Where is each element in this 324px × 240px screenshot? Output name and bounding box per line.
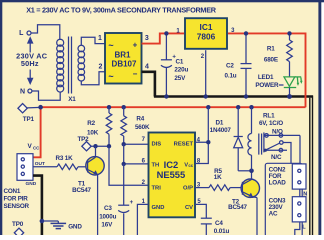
- svg-text:6V, 1C/O: 6V, 1C/O: [259, 120, 283, 127]
- N/C contact: [264, 148, 287, 161]
- CON1 text: [4, 188, 30, 210]
- switch arm: [265, 141, 291, 164]
- capacitor C2: [225, 33, 252, 96]
- svg-text:BR1: BR1: [114, 50, 131, 59]
- svg-text:1K: 1K: [214, 174, 222, 181]
- svg-text:7806: 7806: [197, 32, 216, 42]
- svg-text:R3 1K: R3 1K: [55, 155, 73, 162]
- wire N to primary: [32, 91, 60, 100]
- CON2/CON3 container box: [265, 163, 302, 236]
- svg-text:TH: TH: [152, 162, 160, 168]
- wire R4 node to TH pin 6: [123, 144, 125, 164]
- svg-text:1N4007: 1N4007: [210, 127, 232, 134]
- svg-text:X1 = 230V AC TO 9V, 300mA SECO: X1 = 230V AC TO 9V, 300mA SECONDARY TRAN…: [26, 5, 217, 14]
- svg-text:R2: R2: [87, 120, 95, 127]
- wire node to 555 TRI pin 2: [109, 146, 149, 185]
- svg-text:0.01u: 0.01u: [214, 228, 230, 235]
- wire R3 to T1 base: [78, 166, 88, 168]
- CV pin5 wire to C4: [195, 204, 206, 218]
- svg-text:N/O: N/O: [272, 128, 283, 135]
- svg-text:560K: 560K: [135, 124, 150, 131]
- svg-text:D1: D1: [216, 120, 224, 127]
- svg-text:LED1: LED1: [258, 74, 274, 81]
- diode D1 1N4007: [210, 107, 252, 171]
- 230V AC 50Hz source arrows: [16, 36, 48, 85]
- svg-text:LOAD: LOAD: [269, 179, 287, 186]
- svg-text:C1: C1: [176, 58, 184, 65]
- svg-text:GND: GND: [152, 205, 165, 211]
- red drop to CON1 Vcc: [33, 107, 41, 157]
- svg-text:TRI: TRI: [152, 185, 162, 191]
- svg-text:1000u: 1000u: [99, 213, 116, 220]
- wire rail to RESET pin4 and Vcc pin8: [195, 107, 208, 142]
- node wire TP2 / T1 collector / R2 / TRI: [91, 145, 109, 147]
- LED1 POWER: [255, 74, 302, 97]
- ground rail (black): [154, 95, 313, 98]
- capacitor C3 1000u 16V: [99, 200, 133, 235]
- connector CON3: [292, 197, 306, 222]
- svg-text:10K: 10K: [87, 129, 99, 136]
- svg-text:~: ~: [108, 72, 113, 82]
- svg-text:220u: 220u: [174, 67, 188, 74]
- wire L to primary: [31, 25, 60, 40]
- wire R5 to T2 base: [230, 187, 242, 189]
- terminal N: [20, 89, 32, 96]
- 555 GND pin 1 wire: [137, 204, 148, 235]
- svg-text:C3: C3: [104, 205, 112, 212]
- resistor R5 1K: [209, 168, 230, 190]
- relay armature bar: [263, 132, 265, 152]
- svg-text:R1: R1: [267, 46, 275, 53]
- wire secondary top to BR1 pin1: [81, 37, 105, 45]
- test point TP0: [12, 221, 24, 238]
- wire CON1 OUT to R3: [33, 166, 57, 168]
- wire BR1 pin3 to IC1 (red): [142, 33, 185, 43]
- svg-text:1: 1: [98, 35, 102, 42]
- capacitor C1: [161, 33, 189, 96]
- svg-text:C4: C4: [215, 220, 223, 227]
- svg-text:X1: X1: [68, 96, 76, 103]
- transformer core: [69, 37, 72, 94]
- +6V rail (red): [41, 106, 306, 108]
- resistor R3 1K: [55, 155, 78, 170]
- svg-text:C2: C2: [226, 63, 234, 70]
- relay coil: [248, 107, 252, 171]
- junction dots +6V rail: [38, 105, 43, 110]
- svg-text:3: 3: [145, 35, 149, 42]
- svg-text:NE555: NE555: [157, 169, 186, 180]
- svg-text:680E: 680E: [264, 56, 278, 63]
- svg-text:AC: AC: [269, 210, 278, 217]
- transistor T2 BC547: [228, 171, 259, 235]
- svg-text:RL1: RL1: [263, 112, 275, 119]
- svg-text:N: N: [20, 89, 25, 96]
- svg-text:SENSOR: SENSOR: [4, 203, 30, 210]
- IC1 pin 2 wire to ground: [205, 50, 207, 96]
- junction dot D1/coil/T2 collector: [249, 169, 254, 174]
- svg-text:25V: 25V: [174, 75, 186, 82]
- svg-text:50Hz: 50Hz: [21, 59, 39, 68]
- ground down right side (black double line): [310, 96, 313, 236]
- svg-text:L: L: [302, 224, 306, 230]
- junction dots ground rail: [164, 94, 168, 98]
- resistor R1 680E: [264, 33, 292, 76]
- resistor R4 560K: [121, 107, 150, 144]
- svg-text:POWER: POWER: [255, 82, 279, 89]
- wire node to capacitor C3: [123, 164, 125, 205]
- junction dots top rail: [164, 31, 168, 35]
- capacitor C4 0.01u: [201, 218, 230, 235]
- ground symbol: [42, 221, 66, 229]
- svg-text:RESET: RESET: [174, 141, 194, 147]
- bridge rectifier BR1 DB107: [105, 33, 142, 84]
- svg-text:R4: R4: [136, 115, 144, 122]
- svg-text:2: 2: [99, 64, 103, 71]
- connector CON1: [17, 154, 33, 181]
- test point TP1: [18, 104, 41, 123]
- svg-text:CV: CV: [185, 205, 193, 211]
- relay core: [259, 134, 262, 155]
- resistor R2 10K: [87, 107, 112, 146]
- svg-text:TP0: TP0: [12, 221, 24, 228]
- svg-text:~: ~: [108, 41, 113, 51]
- svg-text:IC1: IC1: [200, 22, 213, 32]
- junction dot GND: [40, 219, 45, 224]
- svg-text:GND: GND: [26, 181, 37, 187]
- connector CON2: [292, 164, 306, 189]
- svg-text:16V: 16V: [101, 222, 113, 229]
- svg-text:DIS: DIS: [152, 141, 162, 147]
- svg-text:CON1: CON1: [4, 188, 21, 195]
- svg-text:GND: GND: [68, 223, 82, 230]
- svg-text:N/C: N/C: [271, 154, 282, 161]
- svg-text:BC547: BC547: [228, 204, 247, 211]
- +9V rail from IC1 output (red): [228, 33, 306, 107]
- svg-text:DB107: DB107: [112, 60, 137, 69]
- svg-text:−: −: [133, 70, 138, 79]
- svg-text:0.1u: 0.1u: [225, 73, 237, 80]
- border frame: [0, 0, 324, 2]
- wire secondary bottom to BR1 pin2: [81, 72, 105, 85]
- svg-text:+: +: [133, 41, 138, 50]
- wire CON2 to CON3 (N): [299, 189, 301, 197]
- wire R4 to DIS pin 7: [124, 143, 149, 145]
- timer IC2 NE555: [149, 133, 196, 218]
- CON2 text: [269, 167, 287, 187]
- transformer X1 primary winding: [57, 39, 64, 92]
- svg-text:BC547: BC547: [72, 187, 91, 194]
- svg-text:O/P: O/P: [183, 185, 193, 191]
- wire BR1 pin4 to ground rail (black): [142, 72, 155, 97]
- svg-text:TP1: TP1: [23, 116, 35, 123]
- svg-text:4: 4: [145, 64, 149, 71]
- CON1 GND wire (black): [33, 176, 42, 235]
- svg-text:+: +: [130, 200, 134, 206]
- CON3 text: [269, 198, 286, 218]
- test point TP2: [77, 136, 91, 151]
- wire below CON3 (L): [295, 222, 300, 235]
- transformer X1 secondary winding: [78, 45, 85, 81]
- regulator IC1 7806: [185, 18, 227, 49]
- wire O/P pin3 to R5: [195, 187, 209, 189]
- transistor T1 BC547: [72, 146, 104, 235]
- terminal L: [19, 30, 31, 37]
- N/O contact and wire: [265, 128, 300, 164]
- svg-text:CC: CC: [33, 145, 40, 150]
- svg-text:FOR PIR: FOR PIR: [4, 196, 29, 203]
- svg-text:cc: cc: [188, 163, 193, 168]
